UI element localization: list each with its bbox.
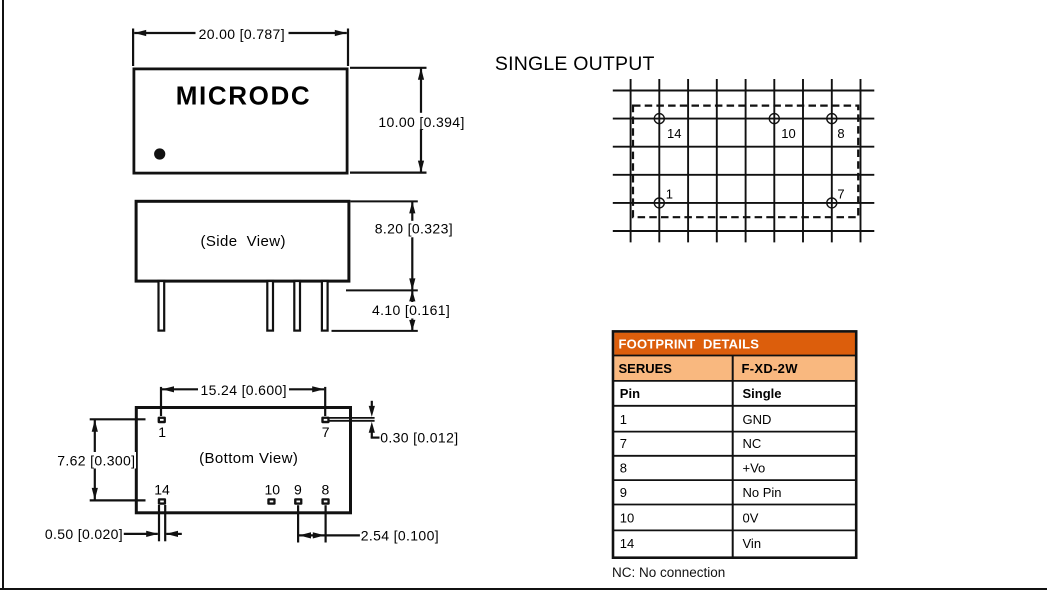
svg-text:7: 7 [620, 436, 627, 451]
table column divider [732, 356, 734, 557]
table row Pin / Single [620, 386, 782, 401]
svg-text:0.30 [0.012]: 0.30 [0.012] [380, 430, 458, 446]
dimension 20.00 extension lines [133, 29, 348, 67]
svg-text:FOOTPRINT DETAILS: FOOTPRINT DETAILS [619, 337, 760, 352]
svg-text:F-XD-2W: F-XD-2W [742, 361, 799, 376]
dimension 10.00 line with arrows [377, 68, 465, 173]
svg-text:0V: 0V [743, 510, 759, 525]
table serues row background [614, 356, 855, 381]
bottom view pin 1 pad [158, 417, 166, 424]
bottom view pin 10 pad [267, 498, 275, 505]
label (Bottom View) [199, 450, 298, 467]
dimension 7.62 line with arrows [56, 420, 137, 500]
top view outline [134, 69, 347, 173]
svg-text:GND: GND [743, 412, 772, 427]
label (Side View) [201, 233, 286, 250]
svg-text:4.10 [0.161]: 4.10 [0.161] [372, 302, 450, 318]
table row 9 No Pin [620, 485, 782, 500]
dimension 0.30 leader with arrows [369, 401, 380, 438]
table row SERUES [619, 361, 799, 376]
dimension 0.50 leader arrows [124, 531, 182, 537]
dimension 10.00 extension lines [350, 68, 427, 173]
svg-text:1: 1 [620, 412, 627, 427]
svg-text:15.24 [0.600]: 15.24 [0.600] [201, 382, 287, 398]
svg-text:1: 1 [158, 424, 166, 440]
pin number 10 [265, 482, 281, 498]
svg-text:14: 14 [667, 126, 681, 141]
footprint pin label 8 [837, 126, 844, 141]
svg-text:8.20 [0.323]: 8.20 [0.323] [375, 221, 453, 237]
svg-text:(Bottom View): (Bottom View) [199, 450, 298, 467]
pin number 7 [322, 424, 330, 440]
footprint pin label 10 [781, 126, 795, 141]
side view pins [159, 281, 328, 331]
top view pin1 dot [154, 148, 165, 159]
table row 10 0V [620, 510, 759, 525]
svg-text:9: 9 [620, 485, 627, 500]
table outer border [613, 331, 856, 557]
footprint pin label 7 [837, 187, 844, 202]
table header text [619, 337, 760, 352]
dimension 0.30 text [380, 430, 458, 446]
svg-text:10.00 [0.394]: 10.00 [0.394] [378, 114, 464, 130]
svg-text:0.50 [0.020]: 0.50 [0.020] [45, 526, 123, 542]
bottom view outline [136, 408, 350, 513]
svg-text:14: 14 [154, 482, 170, 498]
svg-text:Vin: Vin [743, 536, 762, 551]
dimension 4.10 text [372, 302, 450, 318]
dimension 0.50 extension lines below pin 14 [159, 505, 165, 541]
footprint pin 7 circle [827, 198, 837, 208]
svg-text:2.54 [0.100]: 2.54 [0.100] [361, 527, 439, 543]
svg-text:7: 7 [837, 187, 844, 202]
svg-text:10: 10 [265, 482, 281, 498]
dimension 2.54 text [361, 527, 439, 543]
pin number 9 [294, 482, 302, 498]
footprint pin 1 circle [654, 198, 664, 208]
pin number 1 [158, 424, 166, 440]
footprint pin label 14 [667, 126, 681, 141]
dimension 20.00 line with arrows [134, 26, 347, 42]
table inner horizontal lines [613, 356, 856, 531]
dimension 20.00 text [199, 26, 285, 42]
svg-text:10: 10 [781, 126, 795, 141]
footprint pin 8 circle [827, 114, 837, 124]
svg-text:8: 8 [837, 126, 844, 141]
dimension 15.24 extension lines [161, 387, 325, 416]
page frame left border [2, 0, 4, 590]
bottom view pin 9 pad [294, 498, 302, 505]
svg-text:8: 8 [322, 482, 330, 498]
dimension 10.00 text [378, 114, 464, 130]
bottom view pin 7 pad [321, 417, 329, 424]
bottom view pin 8 pad [321, 498, 329, 505]
table row 8 +Vo [620, 461, 765, 476]
dimension 15.24 line with arrows [162, 382, 324, 398]
heading SINGLE OUTPUT [495, 53, 655, 75]
label MICRODC [176, 81, 311, 111]
svg-text:SINGLE OUTPUT: SINGLE OUTPUT [495, 53, 655, 75]
footprint pin 14 circle [654, 114, 664, 124]
page frame bottom border [0, 588, 1047, 590]
note NC [612, 565, 725, 580]
dimension 8.20 extension lines [346, 201, 418, 290]
footprint grid vertical lines [631, 79, 861, 242]
dimension 7.62 text [57, 452, 135, 468]
svg-text:20.00 [0.787]: 20.00 [0.787] [199, 26, 285, 42]
svg-text:MICRODC: MICRODC [176, 81, 311, 111]
svg-text:No Pin: No Pin [743, 485, 782, 500]
pin 7 side tab lines (0.30 thickness) [330, 418, 375, 421]
svg-text:7.62 [0.300]: 7.62 [0.300] [57, 452, 135, 468]
dimension 2.54 line with arrows [299, 532, 360, 538]
svg-text:8: 8 [620, 461, 627, 476]
pin number 8 [322, 482, 330, 498]
dimension 4.10 extension line [332, 330, 418, 332]
dimension 4.10 line with arrows [371, 290, 452, 331]
footprint module outline dashed [633, 106, 858, 218]
svg-text:Pin: Pin [620, 386, 640, 401]
svg-text:+Vo: +Vo [743, 461, 766, 476]
footprint grid horizontal lines [613, 91, 875, 232]
svg-text:SERUES: SERUES [619, 361, 673, 376]
dimension 8.20 line with arrows [374, 201, 454, 290]
dimension 2.54 extension lines below pins 9 and 8 [298, 505, 326, 542]
svg-text:(Side View): (Side View) [201, 233, 286, 250]
svg-text:10: 10 [620, 510, 634, 525]
svg-text:7: 7 [322, 424, 330, 440]
dimension 8.20 text [375, 221, 453, 237]
table row 14 Vin [620, 536, 761, 551]
svg-text:NC: NC [743, 436, 762, 451]
dimension 7.62 extension lines [90, 419, 146, 500]
footprint pin label 1 [666, 187, 673, 202]
footprint pin 10 circle [769, 114, 779, 124]
svg-text:14: 14 [620, 536, 634, 551]
dimension 0.50 text [45, 526, 123, 542]
dimension 15.24 text [201, 382, 287, 398]
bottom view pin 14 pad [158, 498, 166, 505]
pin number 14 [154, 482, 170, 498]
side view outline [136, 201, 349, 281]
svg-text:1: 1 [666, 187, 673, 202]
table header background [614, 333, 855, 356]
svg-text:Single: Single [743, 386, 782, 401]
table row 7 NC [620, 436, 761, 451]
svg-text:9: 9 [294, 482, 302, 498]
table row 1 GND [620, 412, 772, 427]
